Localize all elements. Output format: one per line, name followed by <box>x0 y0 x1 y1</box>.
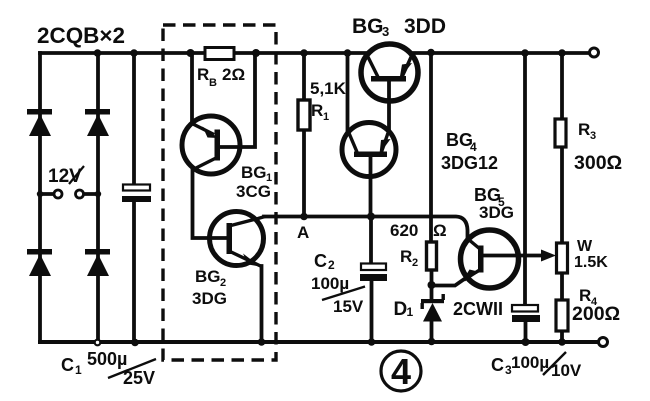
transistor BG3 <box>361 44 418 101</box>
label R1 <box>311 101 329 123</box>
label 12V <box>48 166 84 187</box>
svg-text:500µ: 500µ <box>87 349 127 369</box>
wire top rail left <box>40 51 367 55</box>
resistor R3 <box>555 119 566 147</box>
diode top-left <box>27 109 52 136</box>
wire BG4 base to node A <box>369 157 373 216</box>
label C1 500u/25V <box>61 349 156 388</box>
svg-text:R: R <box>578 120 590 139</box>
wire BG1 emitter to rail <box>190 53 194 123</box>
svg-text:W: W <box>577 238 593 255</box>
wire node A horizontal <box>264 217 468 241</box>
svg-text:B: B <box>209 77 217 89</box>
wire BG5 base to W wiper <box>483 254 542 258</box>
svg-text:2CQB×2: 2CQB×2 <box>37 23 125 48</box>
wire R4 bottom <box>560 331 564 342</box>
diode bottom-left <box>27 249 52 276</box>
svg-text:620: 620 <box>390 221 418 240</box>
wire left bridge branch <box>38 53 42 342</box>
wire C2 bottom <box>370 281 374 342</box>
svg-text:3DG12: 3DG12 <box>441 153 498 173</box>
svg-text:100µ: 100µ <box>511 353 549 372</box>
wire R1 bottom to node A <box>302 130 306 216</box>
transistor BG1 <box>182 116 240 174</box>
junction dot node A / BG4 base <box>367 213 375 221</box>
capacitor C2 <box>360 264 387 282</box>
svg-text:3DG: 3DG <box>192 289 227 308</box>
svg-text:1: 1 <box>407 305 414 319</box>
svg-text:10V: 10V <box>551 361 582 380</box>
svg-text:200Ω: 200Ω <box>572 303 620 325</box>
svg-text:A: A <box>297 223 309 242</box>
transistor BG4 <box>342 123 396 177</box>
resistor R4 <box>556 300 568 331</box>
12V AC terminal right <box>76 190 84 198</box>
potentiometer wiper arrow <box>541 250 556 262</box>
wire C1 branch upper <box>132 53 136 185</box>
wire D1 top <box>430 285 434 299</box>
wire 12V stub right <box>84 192 98 196</box>
svg-text:2: 2 <box>328 258 335 272</box>
svg-text:5,1K: 5,1K <box>310 79 347 98</box>
node A junction dot <box>300 213 308 221</box>
svg-text:BG: BG <box>195 267 221 286</box>
wire C3 branch upper <box>523 53 527 305</box>
svg-text:1.5K: 1.5K <box>574 254 608 271</box>
svg-text:BG: BG <box>241 163 267 182</box>
label BG1 <box>241 163 272 184</box>
wire BG1 collector to rail <box>219 53 255 147</box>
svg-text:2CWII: 2CWII <box>453 299 503 319</box>
wire R3 to W <box>560 147 564 243</box>
open junction circle bottom rail <box>95 340 101 346</box>
label BG2 <box>195 267 226 289</box>
capacitor C1 <box>122 185 151 203</box>
figure number 4 <box>381 351 421 392</box>
transistor BG2 <box>210 212 266 267</box>
resistor R2 <box>427 242 437 270</box>
12V AC terminal left <box>54 190 62 198</box>
wire 12V stub left <box>40 192 54 196</box>
wire BG5 emitter to junction <box>432 279 466 286</box>
svg-text:25V: 25V <box>123 368 155 388</box>
svg-text:R: R <box>197 65 209 84</box>
resistor RB <box>205 48 234 60</box>
label BG3 3DD <box>352 15 446 39</box>
svg-text:BG: BG <box>474 185 501 205</box>
svg-text:2: 2 <box>220 277 226 289</box>
transistor BG5 <box>461 230 519 288</box>
label 620 ohm <box>390 221 447 240</box>
svg-text:4: 4 <box>391 351 411 392</box>
wire C3 bottom <box>524 322 528 342</box>
label BG4 <box>446 130 477 154</box>
svg-text:R: R <box>311 101 323 120</box>
potentiometer W box <box>557 243 568 273</box>
label R4 <box>579 286 598 308</box>
wire top rail right <box>411 51 590 55</box>
svg-text:3: 3 <box>382 24 389 39</box>
svg-text:12V: 12V <box>48 166 82 187</box>
wire BG1 base to BG2 base <box>193 169 228 238</box>
wire second bridge branch <box>96 53 100 342</box>
wire R3 top <box>560 53 564 119</box>
svg-text:D: D <box>394 299 408 320</box>
svg-text:R: R <box>400 247 412 266</box>
label C3 100u/10V <box>491 352 582 380</box>
svg-text:100µ: 100µ <box>311 274 349 293</box>
svg-text:3DD: 3DD <box>404 15 446 38</box>
svg-text:1: 1 <box>323 111 329 123</box>
label D1 <box>394 299 414 320</box>
wire W to R4 <box>560 273 564 300</box>
label R3 <box>578 120 596 142</box>
wire BG3 base to BG4 emitter <box>387 81 391 131</box>
svg-text:C: C <box>61 355 74 375</box>
junction dots 12V taps <box>37 191 101 197</box>
output terminal top <box>590 48 599 57</box>
svg-text:BG: BG <box>446 130 473 150</box>
resistor R1 <box>298 100 310 130</box>
svg-text:C: C <box>314 251 327 271</box>
svg-text:BG: BG <box>352 15 384 38</box>
junction dot R2/D1/BG5 emitter <box>428 281 436 289</box>
svg-text:C: C <box>491 355 504 375</box>
wire C1 branch lower <box>132 202 136 342</box>
label C2 <box>314 251 335 272</box>
label R2 <box>400 247 418 269</box>
junction dots top rail <box>94 49 566 57</box>
zener diode D1 <box>421 294 445 322</box>
wire bottom rail <box>40 340 598 344</box>
wire BG4 collector to rail <box>346 53 350 133</box>
svg-text:4: 4 <box>470 140 477 154</box>
svg-text:3: 3 <box>590 130 596 142</box>
wire BG2 emitter to bottom rail <box>260 266 264 342</box>
svg-text:2Ω: 2Ω <box>222 65 245 84</box>
wire R2 to D1 junction <box>430 270 434 285</box>
diode bottom-mid <box>85 249 110 276</box>
svg-text:Ω: Ω <box>433 221 447 240</box>
junction dots bottom rail <box>131 338 566 347</box>
svg-text:15V: 15V <box>333 297 364 316</box>
svg-text:2: 2 <box>412 257 418 269</box>
diode top-mid <box>85 109 110 136</box>
label BG5 <box>474 185 505 209</box>
label RB 2ohm <box>197 65 245 89</box>
wire D1 bottom <box>430 321 434 342</box>
output terminal bottom <box>599 338 608 347</box>
wire C2 top <box>369 216 373 264</box>
capacitor C3 <box>512 305 540 322</box>
wire R2 branch from rail <box>429 53 433 242</box>
svg-text:300Ω: 300Ω <box>574 152 622 174</box>
svg-text:3CG: 3CG <box>236 182 271 201</box>
svg-text:1: 1 <box>75 363 82 377</box>
wire R1 top <box>302 53 306 100</box>
slash (C2 rating) <box>322 287 365 301</box>
dashed module box <box>163 25 276 360</box>
svg-text:3DG: 3DG <box>479 203 514 222</box>
